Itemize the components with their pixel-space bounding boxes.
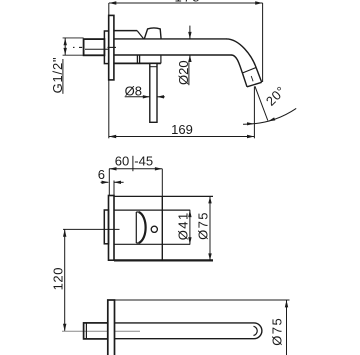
nozzle joint line [242, 68, 256, 74]
dimension Ø75: dim line [209, 196, 211, 260]
dimension 169: left extension [108, 81, 110, 139]
dimension 120: dim line [64, 229, 66, 331]
control: body bottom edge + Ø75 extension (thick) [114, 259, 213, 261]
svg-text:Ø75: Ø75 [195, 211, 210, 240]
control: handle D flat edge [135, 212, 137, 243]
control: body right edge [161, 196, 163, 260]
dimension 6 right extension [113, 181, 115, 196]
dimension Ø20 arrow down [188, 32, 191, 39]
control: handle D bottom tick [136, 242, 139, 244]
dimension 6: right segment [114, 181, 124, 183]
svg-text:Ø8: Ø8 [125, 83, 142, 98]
dimension Ø75 arrow up [208, 196, 211, 203]
mixer body top edge [114, 30, 137, 32]
svg-text:6: 6 [98, 167, 105, 182]
spout front: tube end cap outer arc [254, 323, 262, 339]
control: Ø41 bottom line [114, 243, 190, 245]
G1/2 extension line top [63, 37, 84, 39]
20 degree arc [243, 108, 296, 124]
dimension Ø75 arrow down [208, 253, 211, 260]
extension line right (spout tip) [262, 3, 264, 82]
dimension 169: right extension [253, 87, 255, 139]
spout front: tube top line [115, 322, 255, 324]
G1/2 label underline [62, 59, 64, 94]
control: Ø41 top line [114, 209, 190, 211]
svg-text:-45: -45 [134, 154, 153, 169]
dimension Ø41: dim line [189, 210, 191, 244]
svg-text:Ø41: Ø41 [176, 211, 191, 240]
spout front: centerline (gray) [62, 330, 140, 332]
dimension Ø8 arrow right [157, 95, 164, 98]
dimension Ø41 arrow down [188, 237, 191, 244]
control: handle D top tick [136, 211, 139, 213]
spout front: G1/2 pipe [84, 323, 108, 339]
svg-text:60: 60 [115, 154, 129, 169]
spout front: wall plate [108, 300, 115, 355]
svg-text:178: 178 [175, 0, 202, 5]
pipe inner bore line [85, 48, 108, 50]
nozzle right side [256, 68, 262, 83]
spout bend outer arc [226, 39, 256, 68]
spout front: tube bottom line [115, 338, 255, 340]
G1/2 dimension line [64, 38, 66, 55]
G1/2 threaded pipe [84, 39, 105, 55]
dimension 169 arrow right [247, 135, 254, 138]
control: indicator circle [151, 226, 157, 232]
dimension 60-45 arrow right [155, 167, 162, 170]
G1/2 arrow up [63, 38, 66, 45]
svg-text:169: 169 [171, 122, 193, 137]
dimension 178 arrow right [255, 1, 262, 4]
body lower notch slot [136, 55, 138, 63]
nozzle left side [242, 73, 247, 87]
60-45 left extension [108, 169, 110, 196]
wall plate (side view) [109, 15, 114, 80]
control: handle D curve [139, 212, 146, 243]
G1/2 extension line bottom [63, 54, 84, 56]
dimension 178 top: dim line [109, 2, 263, 4]
dimension 6 arrow right-pointing [102, 181, 109, 184]
body lower right edge [160, 55, 162, 63]
spout tube top line [114, 38, 227, 40]
control: body behind wall [104, 210, 108, 244]
dimension 60-45: dim line [109, 168, 162, 170]
spout front: tube end cap inner arc [254, 326, 258, 335]
dimension Ø20: lower segment [189, 55, 191, 60]
dimension 120 arrow down [63, 324, 66, 331]
20 degree slant line [255, 86, 268, 120]
dimension Ø8 arrow left [143, 95, 150, 98]
svg-text:120: 120 [50, 267, 65, 291]
dimension Ø75 spout arrow up [285, 300, 288, 307]
dimension 60-45 arrow left [109, 167, 116, 170]
dimension Ø75 spout: dim line [286, 300, 288, 355]
body taper diagonal [137, 31, 144, 39]
control: centerline [63, 228, 120, 230]
20 degree arc arrow right [268, 117, 275, 121]
rod collar line [150, 66, 157, 68]
svg-text:Ø75: Ø75 [269, 317, 284, 346]
control: wall plate (edge view) [109, 196, 115, 261]
dimension 6 arrow left-pointing [114, 181, 121, 184]
extension line left (wall face) [108, 3, 110, 15]
spout tube bottom line [114, 54, 232, 56]
nozzle end face [247, 82, 262, 87]
dimension Ø20 underline [188, 62, 190, 85]
dimension Ø8: dim line right part [157, 96, 165, 98]
lever tab on top [144, 28, 161, 39]
dimension 120 arrow up [63, 229, 66, 236]
dimension 6: left segment [101, 181, 109, 183]
dimension Ø75 spout: extension line [115, 299, 290, 301]
dimension Ø20 arrow up [188, 55, 191, 62]
60-45 right extension [161, 169, 163, 197]
dimension Ø20: upper segment [189, 26, 191, 39]
spout bend inner arc [231, 55, 242, 73]
dimension Ø8: dim line left part [125, 96, 150, 98]
nozzle axis dash [251, 76, 253, 81]
lever rod below body [150, 63, 157, 122]
pipe centerline dash [79, 46, 82, 48]
body bottom edge [114, 62, 161, 64]
20 degree arc arrow left [247, 122, 254, 125]
G1/2 arrow down [63, 48, 66, 55]
dimension 169 arrow left [109, 135, 116, 138]
spout front: pipe inner line [85, 323, 87, 338]
dimension Ø41 arrow up [188, 210, 191, 217]
60/45 middle extension bar [132, 156, 134, 171]
dimension 178 arrow left [109, 1, 116, 4]
control: body top edge + Ø75 extension [114, 195, 213, 197]
dimension 169: dim line [109, 136, 255, 138]
inlet body behind wall [104, 31, 108, 64]
